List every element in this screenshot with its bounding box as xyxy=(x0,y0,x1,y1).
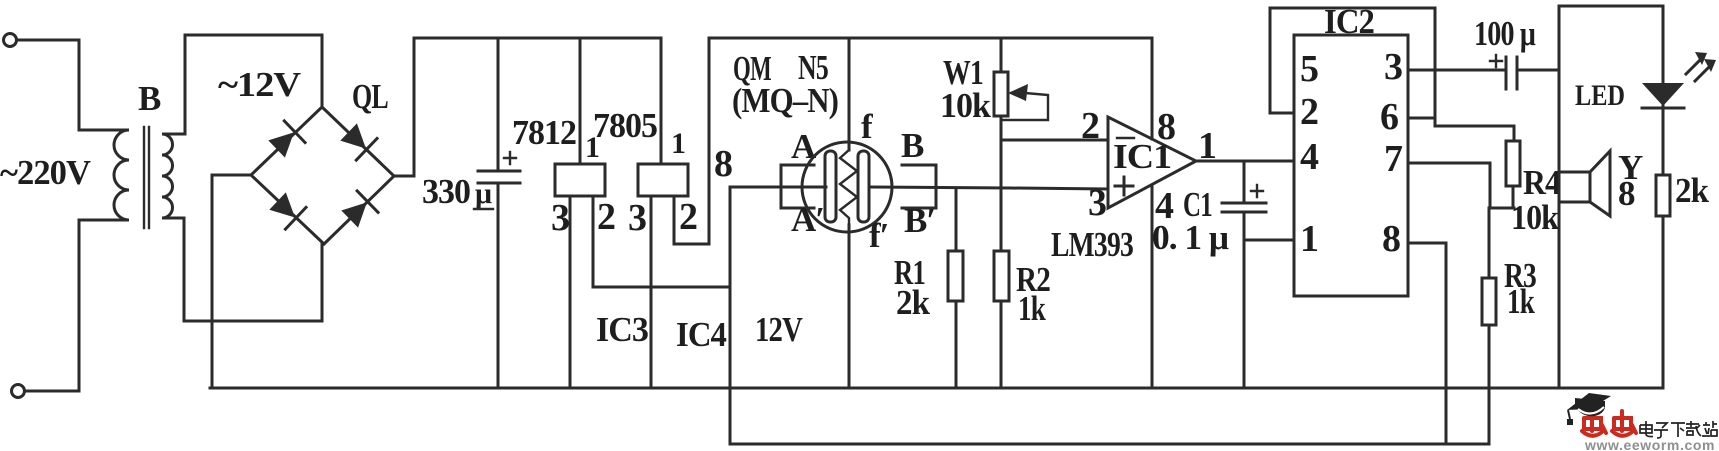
bracket A-A' xyxy=(781,165,814,208)
capacitor C1 lead bottom to ground bus xyxy=(1243,214,1246,388)
svg-text:10k: 10k xyxy=(940,86,991,125)
svg-text:1: 1 xyxy=(1198,125,1217,167)
svg-text:1k: 1k xyxy=(1507,282,1535,321)
sensor top rail xyxy=(709,37,1152,40)
svg-text:330: 330 xyxy=(422,172,470,211)
wire primary bottom to terminal xyxy=(25,220,79,391)
resistor R4 body xyxy=(1506,141,1520,186)
7805 pin 1 wire xyxy=(660,38,663,164)
terminal bottom-left xyxy=(12,385,25,398)
resistor R4 lead bottom xyxy=(1512,186,1515,208)
7812 pin 3 wire xyxy=(569,196,572,388)
speaker Y xyxy=(1559,172,1590,202)
bracket B-B' xyxy=(902,165,936,208)
resistor R2 lead bottom xyxy=(1000,301,1003,388)
wire 2k to bus xyxy=(1662,216,1665,388)
capacitor C1 polarity + xyxy=(1251,185,1263,197)
svg-text:B′: B′ xyxy=(904,201,935,240)
svg-text:~12V: ~12V xyxy=(218,65,301,104)
svg-text:8: 8 xyxy=(1618,174,1635,213)
potentiometer W1 wiper arrow xyxy=(1008,84,1028,101)
resistor R3 lead top xyxy=(1488,208,1491,278)
svg-text:~220V: ~220V xyxy=(0,153,91,192)
svg-text:A: A xyxy=(791,127,817,166)
transformer core xyxy=(143,127,145,228)
svg-text:1k: 1k xyxy=(1018,289,1046,328)
IC2 outer feedback loop wire xyxy=(1270,8,1514,141)
right box left edge xyxy=(1559,6,1663,83)
regulator IC4 7805 body xyxy=(638,164,688,196)
svg-text:3: 3 xyxy=(628,197,647,239)
svg-text:B: B xyxy=(138,79,161,118)
svg-text:2k: 2k xyxy=(1675,171,1709,210)
wire lead A to sensor left plate xyxy=(730,186,826,189)
resistor R1 lead bottom xyxy=(955,301,958,388)
resistor 2k body xyxy=(1656,175,1670,216)
sensor left plate xyxy=(825,151,836,222)
terminal top-left xyxy=(4,34,17,47)
watermark chongchong glyphs xyxy=(1582,411,1636,436)
svg-text:4: 4 xyxy=(1300,136,1319,178)
svg-text:0. 1 μ: 0. 1 μ xyxy=(1152,218,1229,257)
wire lead B from right plate xyxy=(869,187,1108,189)
svg-text:7812: 7812 xyxy=(512,113,576,152)
wire +12V rail left xyxy=(414,37,661,40)
IC1 pin 4 wire to ground bus xyxy=(1151,185,1154,388)
svg-text:LM393: LM393 xyxy=(1051,225,1133,264)
capacitor 330u lead top xyxy=(497,38,500,170)
capacitor 330u plates xyxy=(478,170,520,173)
svg-text:B: B xyxy=(901,126,924,165)
svg-text:8: 8 xyxy=(1157,106,1176,148)
bridge rectifier QL diamond xyxy=(251,107,394,244)
resistor R1 lead top xyxy=(955,188,958,251)
svg-text:7805: 7805 xyxy=(593,106,657,145)
svg-text:2: 2 xyxy=(1300,91,1319,133)
potentiometer W1 body xyxy=(994,72,1008,116)
svg-text:6: 6 xyxy=(1380,96,1399,138)
svg-text:2: 2 xyxy=(1081,105,1100,147)
capacitor 330u lead bottom xyxy=(497,184,500,388)
svg-text:1: 1 xyxy=(671,127,686,160)
svg-text:LED: LED xyxy=(1575,79,1625,112)
svg-text:3: 3 xyxy=(1384,46,1403,88)
regulator IC3 7812 body xyxy=(555,164,605,196)
transformer secondary winding xyxy=(162,134,185,218)
svg-text:2: 2 xyxy=(679,196,698,238)
svg-text:1: 1 xyxy=(1300,218,1319,260)
svg-text:10k: 10k xyxy=(1511,198,1559,237)
svg-text:8: 8 xyxy=(714,143,733,185)
watermark graduation cap xyxy=(1567,393,1611,425)
capacitor 100u plates xyxy=(1505,57,1508,89)
watermark site name glyphs xyxy=(1640,421,1717,438)
svg-text:f′: f′ xyxy=(869,216,889,255)
op-amp IC1 triangle xyxy=(1108,117,1196,208)
ground bus main xyxy=(210,387,1663,390)
wire W1 node to IC1 pin 2 xyxy=(1001,139,1108,142)
svg-text:3: 3 xyxy=(551,197,570,239)
svg-text:2: 2 xyxy=(597,196,616,238)
svg-text:IC3: IC3 xyxy=(596,310,648,349)
svg-text:R4: R4 xyxy=(1523,163,1560,202)
bridge diode top-left xyxy=(266,121,305,160)
wire top terminal to primary xyxy=(17,40,79,130)
lower bus xyxy=(730,443,1489,446)
IC1 minus marker xyxy=(1117,137,1134,139)
sensor heater lead f' to ground bus xyxy=(848,225,851,388)
wire secondary top to bridge top vertex xyxy=(185,35,322,134)
gas sensor QM circle xyxy=(802,142,892,232)
IC1 output wire pin 1 to IC2 pin 4 xyxy=(1196,160,1294,163)
svg-text:3: 3 xyxy=(1088,182,1107,224)
resistor R3 body xyxy=(1482,278,1496,325)
transformer B primary winding xyxy=(79,130,129,220)
svg-text:5: 5 xyxy=(1300,48,1319,90)
LED xyxy=(1642,83,1684,106)
wire bridge left vertex to ground bus xyxy=(212,175,251,388)
7805 pin 2 wire up to sensor rail xyxy=(674,38,709,244)
IC2 pin 3 wire to 100u cap xyxy=(1408,69,1505,72)
capacitor 100u polarity + xyxy=(1490,55,1502,67)
bridge diode bottom-left xyxy=(267,190,306,229)
node A vertical wire down to lower bus xyxy=(729,187,732,444)
svg-text:www.eeworm.com: www.eeworm.com xyxy=(1584,437,1715,451)
capacitor C1 lead top xyxy=(1243,161,1246,200)
wire W1 to R2 xyxy=(1000,116,1003,251)
svg-text:(MQ–N): (MQ–N) xyxy=(732,81,838,120)
IC2 chip body xyxy=(1294,35,1408,296)
IC2 pin 1 stub to C1 node xyxy=(1244,239,1294,242)
svg-text:12V: 12V xyxy=(755,310,803,349)
LED to 2k wire xyxy=(1662,106,1665,175)
IC2 pin 8 wire to lower bus xyxy=(1408,243,1446,444)
svg-text:IC2: IC2 xyxy=(1324,2,1374,41)
capacitor 330u polarity + xyxy=(504,152,516,164)
svg-text:IC4: IC4 xyxy=(676,315,726,354)
sensor heater lead f from rail xyxy=(848,38,851,150)
wire bridge right vertex to +rail xyxy=(394,38,414,176)
svg-text:7: 7 xyxy=(1384,138,1403,180)
IC1 pin 8 wire xyxy=(1151,38,1154,139)
7812 pin 1 wire xyxy=(579,38,582,164)
wire secondary bottom to bridge bottom vertex xyxy=(184,218,322,321)
sensor right plate xyxy=(858,151,869,222)
bridge diode bottom-right xyxy=(339,191,378,230)
7812 pin 2 wire to 12V line xyxy=(593,196,730,287)
bridge diode top-right xyxy=(338,121,377,160)
svg-text:QL: QL xyxy=(352,77,388,116)
svg-text:μ: μ xyxy=(475,177,492,210)
sensor heater zigzag xyxy=(840,150,857,225)
capacitor C1 plates xyxy=(1222,202,1266,205)
resistor R3 lead bottom to lower bus xyxy=(1488,325,1491,444)
svg-text:2k: 2k xyxy=(896,283,930,322)
svg-text:100 μ: 100 μ xyxy=(1474,14,1536,53)
svg-text:f: f xyxy=(861,107,873,146)
resistor R1 body xyxy=(948,251,963,301)
7805 pin 3 wire xyxy=(650,196,653,388)
resistor R2 body xyxy=(994,251,1009,301)
wire 100u to right box xyxy=(1519,69,1559,72)
IC2 pin 6 stub xyxy=(1408,117,1435,120)
potentiometer W1 lead top xyxy=(1000,38,1003,72)
IC2 pin 7 wire xyxy=(1408,163,1514,208)
svg-text:8: 8 xyxy=(1382,218,1401,260)
LED rays xyxy=(1686,60,1700,74)
IC1 plus marker xyxy=(1115,177,1133,195)
